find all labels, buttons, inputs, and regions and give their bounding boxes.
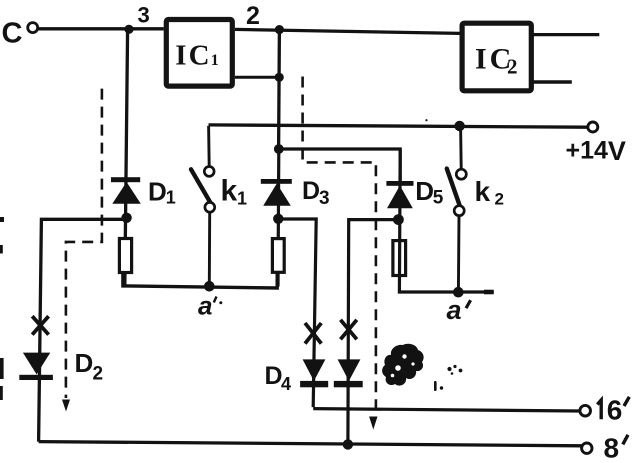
- diode D4a: [265, 359, 329, 394]
- X mark on D4b branch: [341, 320, 357, 340]
- node a-prime: [447, 287, 471, 325]
- terminal 8prime: [582, 433, 628, 463]
- node 3: [124, 3, 149, 34]
- junction dot IC1 lower pin: [275, 73, 284, 82]
- wire C to IC1: [38, 27, 164, 30]
- wire D5 junction to D4b branch: [348, 220, 399, 445]
- wire a-doubleprime rail: [123, 272, 277, 288]
- wire rail tap down to k2: [459, 126, 463, 169]
- wire IC2 right bottom pin: [532, 80, 572, 84]
- wire D3 column down: [276, 149, 280, 287]
- wire k1 to node a-doubleprime: [208, 212, 211, 286]
- svg-text:C: C: [2, 17, 23, 49]
- svg-text:D: D: [415, 176, 434, 206]
- op IC1 box: [166, 20, 232, 87]
- junction dot below D5: [393, 214, 404, 225]
- svg-text:8: 8: [604, 433, 620, 463]
- svg-text:D: D: [148, 177, 167, 207]
- X mark on D4a branch: [305, 323, 321, 344]
- switch k1: [191, 167, 247, 213]
- junction dot below D3: [273, 214, 283, 224]
- svg-text:k: k: [221, 175, 238, 208]
- wire D1 junction to D2 branch: [39, 219, 127, 441]
- stub end blob on a-prime rail: [484, 290, 494, 295]
- wire node2 column down: [277, 30, 281, 149]
- ink specks: [425, 119, 462, 391]
- wire D3 junction to D5 top: [279, 149, 400, 182]
- svg-text:3: 3: [138, 3, 150, 28]
- resistor below D3: [272, 239, 284, 273]
- wire k2 to node a-prime: [457, 216, 461, 292]
- ink blob scribble: [382, 344, 424, 386]
- wire IC1 lower pin: [235, 76, 279, 79]
- X mark on D2 branch: [32, 316, 48, 334]
- diode D1: [111, 177, 176, 208]
- junction dot on 8prime rail: [343, 439, 353, 449]
- terminal +14V: [566, 122, 626, 166]
- svg-text:2: 2: [495, 190, 504, 209]
- diode D3: [261, 177, 330, 209]
- svg-text:4: 4: [281, 374, 291, 394]
- svg-text:a: a: [447, 295, 462, 325]
- junction dot below D1: [121, 213, 131, 223]
- diode D5: [386, 176, 443, 209]
- wire D5 column and a-prime rail: [399, 149, 493, 292]
- diode D2: [19, 348, 103, 385]
- svg-text:5: 5: [433, 188, 444, 209]
- resistor below D1: [119, 239, 131, 273]
- wire node3 down to D1 column: [125, 29, 128, 287]
- svg-text:+14V: +14V: [566, 136, 626, 166]
- svg-text:D: D: [302, 177, 320, 205]
- svg-text:3: 3: [319, 188, 330, 209]
- +14V rail: [209, 125, 588, 127]
- dashed feedback path left: [66, 89, 102, 398]
- resistor below D5: [393, 241, 406, 276]
- 16prime wire: [313, 409, 580, 411]
- node 2: [246, 2, 284, 34]
- 8prime rail: [39, 442, 582, 446]
- svg-text:a: a: [198, 291, 212, 321]
- junction dot k2 tap on rail: [454, 121, 464, 131]
- op IC2 box: [462, 23, 531, 91]
- svg-text:1: 1: [237, 188, 247, 208]
- arrow left dashed: [62, 400, 70, 412]
- wire rail corner down to k1: [207, 126, 210, 167]
- svg-text:1: 1: [211, 52, 219, 69]
- wire IC1 to IC2: [235, 29, 460, 33]
- junction dot above D3: [274, 144, 284, 154]
- wire D3 junction to D4a branch: [278, 219, 316, 407]
- svg-text:2: 2: [507, 55, 518, 79]
- diode D4b: [334, 359, 363, 387]
- arrow right dashed: [369, 417, 377, 430]
- svg-text:2: 2: [93, 364, 104, 385]
- switch k2: [447, 169, 504, 216]
- svg-text:D: D: [265, 362, 283, 390]
- edge artifact marks: [0, 217, 4, 400]
- svg-text:D: D: [75, 348, 94, 378]
- svg-text:IC: IC: [175, 39, 211, 71]
- svg-text:k: k: [475, 176, 491, 207]
- wire IC2 right top pin: [532, 33, 600, 36]
- dashed feedback path right: [303, 77, 376, 418]
- terminal 16prime: [580, 394, 629, 425]
- node a-doubleprime: [198, 281, 222, 321]
- terminal C: [28, 23, 38, 33]
- svg-text:1: 1: [166, 188, 176, 208]
- svg-text:2: 2: [246, 2, 260, 30]
- svg-text:6: 6: [607, 394, 623, 425]
